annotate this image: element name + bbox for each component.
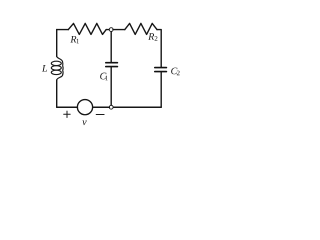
node wire (middle branch from top node): [110, 32, 112, 62]
label C2: [171, 68, 179, 76]
wire inductor up to top-left corner: [56, 30, 58, 57]
label C1: [100, 73, 108, 81]
wire node to source: [93, 106, 110, 108]
node B (bottom, open): [109, 105, 113, 109]
node A (top, open): [109, 28, 113, 32]
label L: [42, 65, 47, 72]
label - polarity: [96, 114, 104, 116]
label v: [82, 120, 86, 125]
wire top-left horizontal: [57, 29, 69, 31]
wire C1 down to bottom node: [110, 67, 112, 105]
label R1: [70, 36, 79, 43]
resistor R1: [68, 23, 106, 34]
capacitor C1: [106, 63, 118, 67]
resistor R2: [125, 23, 157, 34]
source v (circle): [77, 100, 92, 115]
wire C2 down to bottom-right corner: [160, 72, 162, 107]
wire bottom-left corner up to inductor: [56, 80, 58, 107]
wire R2 to top-right corner and down: [157, 30, 161, 67]
wire bottom right: [113, 106, 161, 108]
capacitor C2: [155, 68, 167, 72]
inductor L: [51, 56, 63, 80]
wire node to R2: [113, 29, 125, 31]
label + polarity: [64, 111, 70, 117]
label R2: [148, 33, 157, 41]
wire R1 to node: [106, 29, 109, 31]
wire source to bottom-left corner: [57, 106, 78, 108]
